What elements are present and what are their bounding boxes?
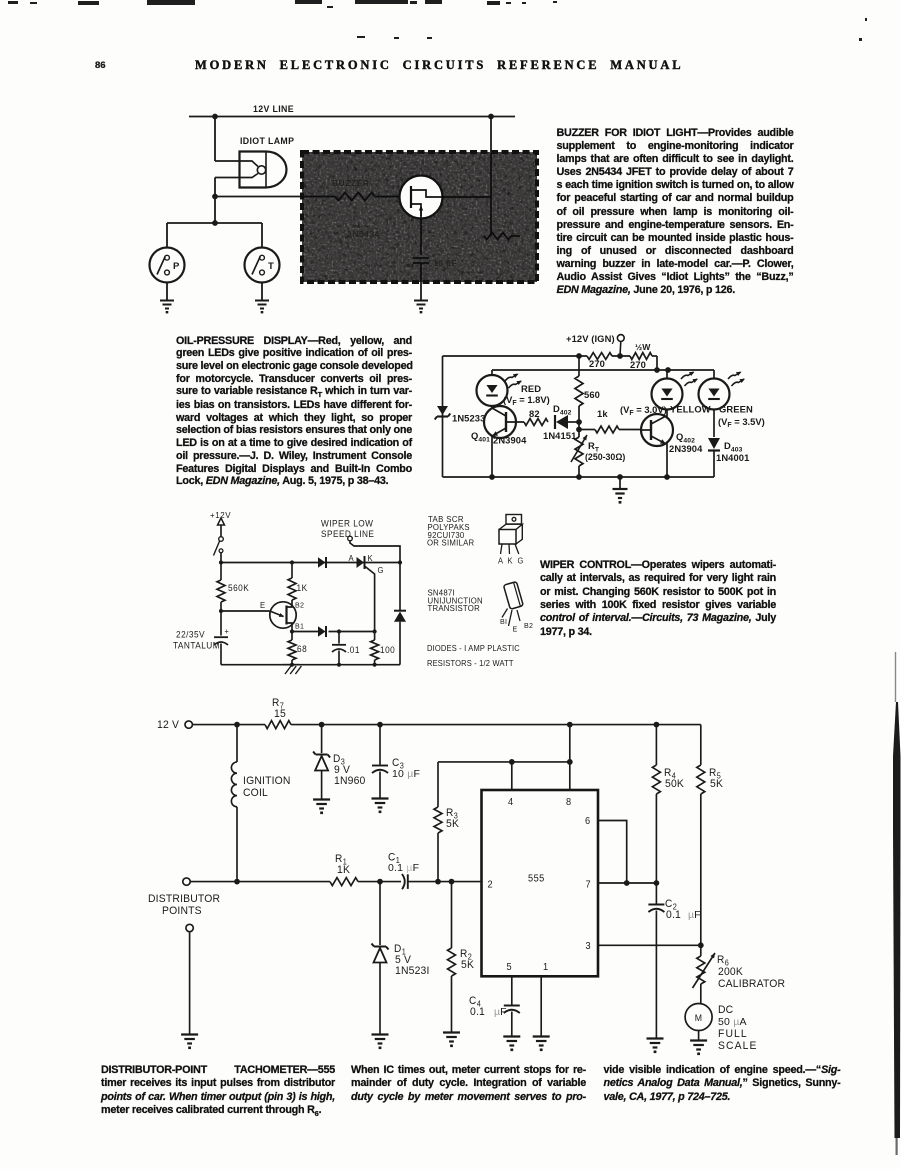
svg-text:2N5434: 2N5434	[347, 229, 380, 239]
svg-text:2: 2	[488, 879, 494, 890]
svg-text:CALIBRATOR: CALIBRATOR	[718, 978, 785, 990]
svg-text:B1: B1	[295, 621, 304, 630]
svg-text:T: T	[268, 261, 274, 272]
svg-text:5K: 5K	[446, 818, 460, 830]
svg-text:IDIOT LAMP: IDIOT LAMP	[240, 136, 294, 146]
svg-text:G: G	[378, 566, 384, 575]
svg-text:555: 555	[528, 873, 545, 884]
svg-text:M: M	[695, 1013, 702, 1023]
svg-text:10 µF: 10 µF	[433, 258, 457, 268]
svg-text:270: 270	[630, 359, 646, 370]
svg-text:200K: 200K	[718, 966, 744, 978]
svg-text:E: E	[260, 601, 265, 610]
svg-text:E: E	[513, 624, 518, 633]
svg-text:50 µA: 50 µA	[718, 1016, 747, 1028]
svg-text:5K: 5K	[461, 959, 475, 971]
svg-text:+: +	[225, 627, 230, 636]
svg-text:.01: .01	[347, 645, 360, 655]
svg-text:1N523I: 1N523I	[395, 965, 430, 977]
svg-text:IGNITION: IGNITION	[243, 775, 291, 787]
svg-text:15: 15	[274, 708, 286, 720]
svg-text:A: A	[349, 554, 355, 563]
svg-text:POINTS: POINTS	[162, 905, 202, 917]
svg-text:1N4151: 1N4151	[543, 430, 576, 441]
svg-text:OR SIMILAR: OR SIMILAR	[427, 538, 474, 547]
svg-text:12 V: 12 V	[157, 719, 180, 731]
svg-text:G: G	[518, 556, 524, 565]
svg-text:½W: ½W	[635, 342, 651, 352]
svg-text:3: 3	[586, 941, 592, 952]
svg-text:RED: RED	[521, 383, 541, 394]
svg-text:2N3904: 2N3904	[493, 435, 527, 446]
svg-text:DIODES - I AMP PLASTIC: DIODES - I AMP PLASTIC	[427, 644, 520, 653]
svg-text:0.1 µF: 0.1 µF	[388, 862, 419, 874]
svg-text:1N4001: 1N4001	[716, 452, 749, 463]
svg-text:BUZZER: BUZZER	[332, 178, 369, 188]
svg-text:RESISTORS - 1/2 WATT: RESISTORS - 1/2 WATT	[427, 659, 514, 668]
svg-text:10 µF: 10 µF	[392, 768, 420, 780]
svg-text:TANTALUM: TANTALUM	[173, 640, 220, 650]
svg-text:µF: µF	[688, 909, 700, 921]
svg-text:K: K	[508, 556, 514, 565]
svg-text:B2: B2	[524, 621, 533, 630]
svg-text:0.1: 0.1	[666, 909, 681, 921]
svg-text:0.1: 0.1	[470, 1006, 485, 1018]
svg-text:DC: DC	[718, 1004, 733, 1016]
svg-text:68: 68	[297, 644, 307, 654]
svg-text:K: K	[368, 554, 374, 563]
svg-text:P: P	[173, 261, 180, 272]
svg-text:A: A	[498, 556, 504, 565]
svg-text:7: 7	[586, 879, 592, 890]
svg-text:560: 560	[584, 389, 600, 400]
svg-text:1N5233: 1N5233	[452, 413, 485, 424]
svg-text:270: 270	[589, 358, 605, 369]
svg-text:B2: B2	[295, 600, 304, 609]
svg-text:(VF = 1.8V): (VF = 1.8V)	[503, 394, 550, 407]
svg-text:1: 1	[543, 962, 549, 973]
svg-text:SCALE: SCALE	[718, 1040, 758, 1052]
svg-text:12V LINE: 12V LINE	[253, 104, 294, 114]
svg-text:COIL: COIL	[243, 787, 268, 799]
svg-text:1K: 1K	[337, 864, 351, 876]
svg-text:µF: µF	[494, 1006, 506, 1018]
svg-text:1K: 1K	[297, 583, 308, 593]
svg-text:1k: 1k	[597, 408, 608, 419]
svg-text:4: 4	[508, 797, 514, 808]
svg-text:82: 82	[529, 408, 540, 419]
svg-text:2N3904: 2N3904	[669, 443, 703, 454]
svg-text:560K: 560K	[228, 583, 249, 593]
svg-text:5K: 5K	[710, 778, 724, 790]
svg-text:100: 100	[380, 645, 395, 655]
svg-text:5: 5	[507, 962, 513, 973]
svg-text:(250-30Ω): (250-30Ω)	[585, 452, 625, 462]
svg-text:50K: 50K	[665, 778, 685, 790]
svg-text:22/35V: 22/35V	[176, 629, 205, 639]
svg-text:FULL: FULL	[718, 1028, 748, 1040]
svg-text:D402: D402	[553, 403, 572, 417]
svg-text:6: 6	[585, 816, 591, 827]
svg-text:(VF = 3.5V): (VF = 3.5V)	[718, 416, 765, 429]
svg-text:+12V (IGN): +12V (IGN)	[566, 333, 615, 344]
svg-text:8: 8	[566, 797, 572, 808]
svg-text:BI: BI	[500, 617, 507, 626]
svg-text:WIPER LOW: WIPER LOW	[321, 518, 374, 528]
svg-text:TRANSISTOR: TRANSISTOR	[428, 604, 480, 613]
svg-text:GREEN: GREEN	[719, 404, 753, 415]
svg-text:DISTRIBUTOR: DISTRIBUTOR	[148, 893, 220, 905]
svg-text:1N960: 1N960	[334, 775, 366, 787]
